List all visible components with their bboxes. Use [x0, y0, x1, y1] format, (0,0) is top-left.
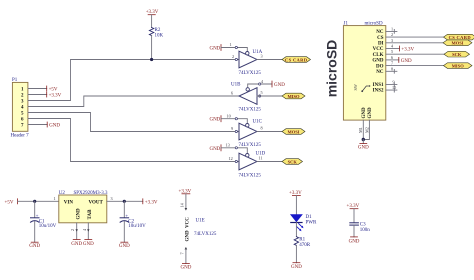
power +3.3V at J1	[399, 46, 414, 53]
svg-text:M1: M1	[358, 127, 363, 133]
wire C2 top	[123, 201, 125, 217]
ground D1	[291, 263, 302, 270]
svg-text:MISO: MISO	[452, 64, 465, 69]
power +3.3V top	[146, 10, 159, 15]
junction C1	[33, 200, 36, 203]
svg-text:P1: P1	[12, 78, 18, 83]
svg-text:U1B: U1B	[231, 83, 241, 88]
svg-text:74LVX125: 74LVX125	[239, 71, 262, 76]
svg-text:10u/10V: 10u/10V	[128, 224, 146, 229]
svg-text:GND: GND	[83, 242, 94, 247]
svg-text:10u/10V: 10u/10V	[39, 224, 57, 229]
junction J1 GND	[362, 138, 365, 141]
svg-text:C3: C3	[360, 223, 366, 228]
svg-text:470R: 470R	[299, 243, 311, 248]
power +3.3V C3	[347, 204, 360, 209]
svg-text:2: 2	[70, 229, 75, 231]
capacitor C3	[350, 223, 371, 234]
ground C2	[119, 242, 130, 249]
wire J1 pin4 VCC	[386, 48, 400, 50]
svg-text:8: 8	[261, 126, 263, 131]
wire J1 pin5 CLK to label	[386, 53, 445, 55]
power +5V	[47, 86, 58, 93]
wire U1E GND pin	[185, 250, 187, 264]
card detect switch	[353, 84, 370, 92]
op-amp buffer U1C	[231, 120, 263, 149]
svg-text:VIN: VIN	[64, 200, 74, 205]
wire pin6 to U1D input	[28, 119, 239, 162]
svg-text:2: 2	[391, 32, 393, 37]
net label MISO	[282, 93, 305, 99]
wire to ground	[362, 140, 364, 144]
connector J1 microSD	[343, 22, 385, 120]
svg-text:1: 1	[230, 42, 232, 47]
svg-text:CS: CS	[377, 36, 384, 41]
wire pin4 to U1B input	[28, 96, 239, 107]
svg-text:GND: GND	[71, 242, 82, 247]
resistor R1	[294, 237, 311, 248]
svg-text:J1: J1	[344, 22, 349, 27]
wire R2 to CS line	[151, 36, 153, 60]
svg-text:8: 8	[391, 66, 393, 71]
wire to D1	[295, 195, 297, 214]
svg-text:GND: GND	[76, 208, 81, 220]
svg-text:GND: GND	[401, 59, 412, 64]
net label SCK	[282, 159, 303, 165]
svg-text:microSD: microSD	[323, 40, 339, 98]
svg-text:+3.3V: +3.3V	[49, 94, 62, 99]
power +3.3V D1	[289, 191, 302, 196]
wire +3.3V to R2	[151, 15, 153, 28]
resistor R2	[149, 28, 163, 39]
svg-text:3: 3	[391, 38, 393, 43]
wire pin7	[28, 124, 47, 126]
wire J1 pin6 GND	[386, 59, 399, 61]
junction C2	[123, 200, 126, 203]
U1E power part	[180, 202, 217, 254]
svg-text:MOSI: MOSI	[287, 129, 299, 134]
wire J1 pin7 DO to label	[386, 65, 445, 67]
svg-text:SCK: SCK	[452, 52, 462, 57]
wire U1A enable	[221, 48, 247, 52]
svg-text:7: 7	[391, 61, 393, 66]
svg-text:9: 9	[231, 126, 233, 131]
svg-text:CS CARD: CS CARD	[449, 35, 472, 40]
ground U2 pin2	[71, 239, 82, 246]
svg-text:GND: GND	[209, 118, 220, 123]
svg-text:11: 11	[259, 156, 263, 161]
J1 pin numbers	[391, 26, 396, 90]
header P1	[11, 78, 30, 139]
wire D1 to R1	[295, 222, 297, 236]
wire C3 to GND	[353, 225, 355, 237]
net label CS CARD	[282, 57, 311, 63]
svg-text:CS CARD: CS CARD	[285, 57, 308, 62]
op-amp buffer U1D	[229, 152, 266, 179]
ground U1A enable	[209, 45, 221, 52]
op-amp buffer U1B	[231, 83, 263, 113]
power +3.3V pin2	[47, 92, 62, 99]
svg-text:MOSI: MOSI	[451, 41, 463, 46]
svg-text:GND: GND	[209, 147, 220, 152]
wire R1 to GND	[295, 245, 297, 262]
power +3.3V U1E	[179, 189, 192, 194]
svg-text:NC: NC	[376, 30, 384, 35]
svg-text:GND: GND	[29, 244, 40, 249]
ground at J1 pin6	[399, 57, 412, 64]
wire U1E VCC pin	[185, 194, 187, 209]
wire J1 pin2 CS to label	[386, 36, 445, 38]
svg-text:GND: GND	[119, 244, 130, 249]
svg-text:GND: GND	[209, 47, 220, 52]
ground U1E	[180, 264, 191, 271]
wire C1 bottom	[34, 221, 36, 242]
svg-text:12: 12	[229, 156, 233, 161]
svg-text:10: 10	[227, 113, 231, 118]
svg-text:INS1: INS1	[373, 83, 384, 88]
svg-text:1: 1	[391, 26, 393, 31]
svg-text:+5V: +5V	[49, 88, 58, 93]
svg-text:+3.3V: +3.3V	[401, 48, 414, 53]
net label CS CARD at J1	[444, 34, 474, 40]
net label MOSI	[282, 129, 305, 135]
capacitor C2	[120, 214, 146, 229]
power +3.3V at regulator out	[143, 199, 158, 206]
wire C2 bottom	[123, 221, 125, 242]
svg-text:GND: GND	[274, 83, 285, 88]
ground C3	[349, 237, 360, 244]
ground U1B enable	[272, 81, 285, 88]
svg-text:MISO: MISO	[287, 94, 300, 99]
svg-text:+5V: +5V	[5, 200, 14, 205]
svg-text:M2: M2	[364, 127, 369, 133]
svg-text:6: 6	[231, 91, 233, 96]
svg-text:100n: 100n	[360, 228, 371, 233]
svg-text:74LVX125: 74LVX125	[239, 108, 262, 113]
wire to C3	[353, 209, 355, 223]
ground U1C enable	[209, 116, 221, 123]
svg-text:R2: R2	[155, 28, 161, 33]
svg-text:74LVX125: 74LVX125	[239, 174, 262, 179]
wire pin3 to U1A input	[28, 60, 239, 101]
svg-text:GND: GND	[362, 107, 367, 119]
svg-text:VCC: VCC	[373, 47, 384, 52]
wire +5V to VIN	[18, 200, 59, 202]
svg-text:U2: U2	[59, 191, 66, 196]
wire J1 pin1 NC stub	[386, 30, 397, 34]
wire J1 GND pins	[363, 120, 369, 139]
svg-text:6: 6	[391, 55, 393, 60]
svg-text:1: 1	[54, 196, 56, 201]
svg-text:13: 13	[226, 142, 230, 147]
wire VOUT	[107, 200, 143, 202]
wire U2 GND pin2	[76, 223, 78, 240]
svg-text:SPX2920M3-3.3: SPX2920M3-3.3	[74, 191, 109, 196]
J1 pin names	[372, 30, 384, 94]
power +5V regulator	[5, 199, 18, 206]
wire U1A output	[257, 59, 282, 61]
svg-text:PWR: PWR	[306, 221, 318, 226]
ground pin7	[47, 122, 60, 129]
wire pin2	[28, 94, 47, 96]
svg-text:10K: 10K	[155, 34, 164, 39]
svg-text:GND: GND	[358, 146, 369, 151]
junction R2/CS	[150, 58, 153, 61]
svg-text:TAB: TAB	[88, 209, 93, 220]
svg-text:VCC: VCC	[186, 217, 191, 228]
net label MOSI at J1	[443, 40, 472, 46]
wire C1 top	[34, 201, 36, 217]
svg-text:GND: GND	[368, 107, 373, 119]
svg-text:Header 7: Header 7	[11, 134, 30, 139]
wire U1D enable	[221, 148, 247, 153]
svg-text:DI: DI	[378, 42, 384, 47]
wire J1 pin9 INS1 stub	[386, 83, 397, 87]
regulator U2	[59, 191, 108, 223]
svg-text:D1: D1	[306, 215, 313, 220]
svg-text:5: 5	[261, 90, 263, 95]
ground C1	[29, 242, 40, 249]
svg-text:5: 5	[391, 49, 393, 54]
svg-text:74LVX125: 74LVX125	[239, 143, 262, 148]
ground U2 TAB	[83, 239, 94, 246]
wire U2 TAB pin4	[87, 223, 89, 240]
net label SCK at J1	[444, 51, 470, 57]
svg-text:microSD: microSD	[365, 22, 383, 27]
svg-text:GND: GND	[349, 239, 360, 244]
ground under J1	[358, 144, 369, 151]
wire pin5 to U1C input	[28, 113, 239, 132]
svg-text:GND: GND	[49, 124, 60, 129]
svg-text:DO: DO	[376, 64, 384, 69]
wire U1B enable	[248, 84, 272, 88]
svg-text:CLK: CLK	[373, 53, 384, 58]
svg-text:7: 7	[180, 252, 185, 254]
svg-text:INS2: INS2	[373, 89, 384, 94]
svg-text:GND: GND	[291, 265, 302, 270]
svg-text:3: 3	[261, 54, 263, 59]
svg-text:2: 2	[232, 54, 234, 59]
svg-text:U1C: U1C	[253, 120, 263, 125]
svg-text:NC: NC	[376, 70, 384, 75]
wire pin1	[28, 88, 47, 90]
wire U1C output	[257, 131, 282, 133]
wire U1B output	[257, 95, 282, 97]
ground U1D enable	[209, 145, 221, 152]
svg-text:3: 3	[111, 196, 113, 201]
wire J1 pin8 NC stub	[386, 69, 397, 73]
svg-text:+3.3V: +3.3V	[145, 200, 158, 205]
LED D1	[291, 215, 317, 232]
svg-text:U1E: U1E	[196, 219, 205, 224]
net label MISO at J1	[444, 63, 473, 69]
svg-text:74LVX125: 74LVX125	[194, 232, 217, 237]
svg-text:GND: GND	[186, 230, 191, 242]
wire J1 pin3 DI to label	[386, 42, 444, 44]
capacitor C1	[31, 214, 57, 229]
svg-text:SW: SW	[353, 84, 358, 90]
wire J1 pin10 INS2 stub	[386, 88, 397, 92]
svg-text:SCK: SCK	[288, 159, 298, 164]
svg-text:GND: GND	[372, 59, 384, 64]
svg-text:VOUT: VOUT	[89, 200, 104, 205]
wire U1D output	[257, 161, 282, 163]
svg-text:GND: GND	[180, 266, 191, 271]
op-amp buffer U1A	[232, 50, 263, 76]
wire U1C enable	[221, 119, 247, 123]
